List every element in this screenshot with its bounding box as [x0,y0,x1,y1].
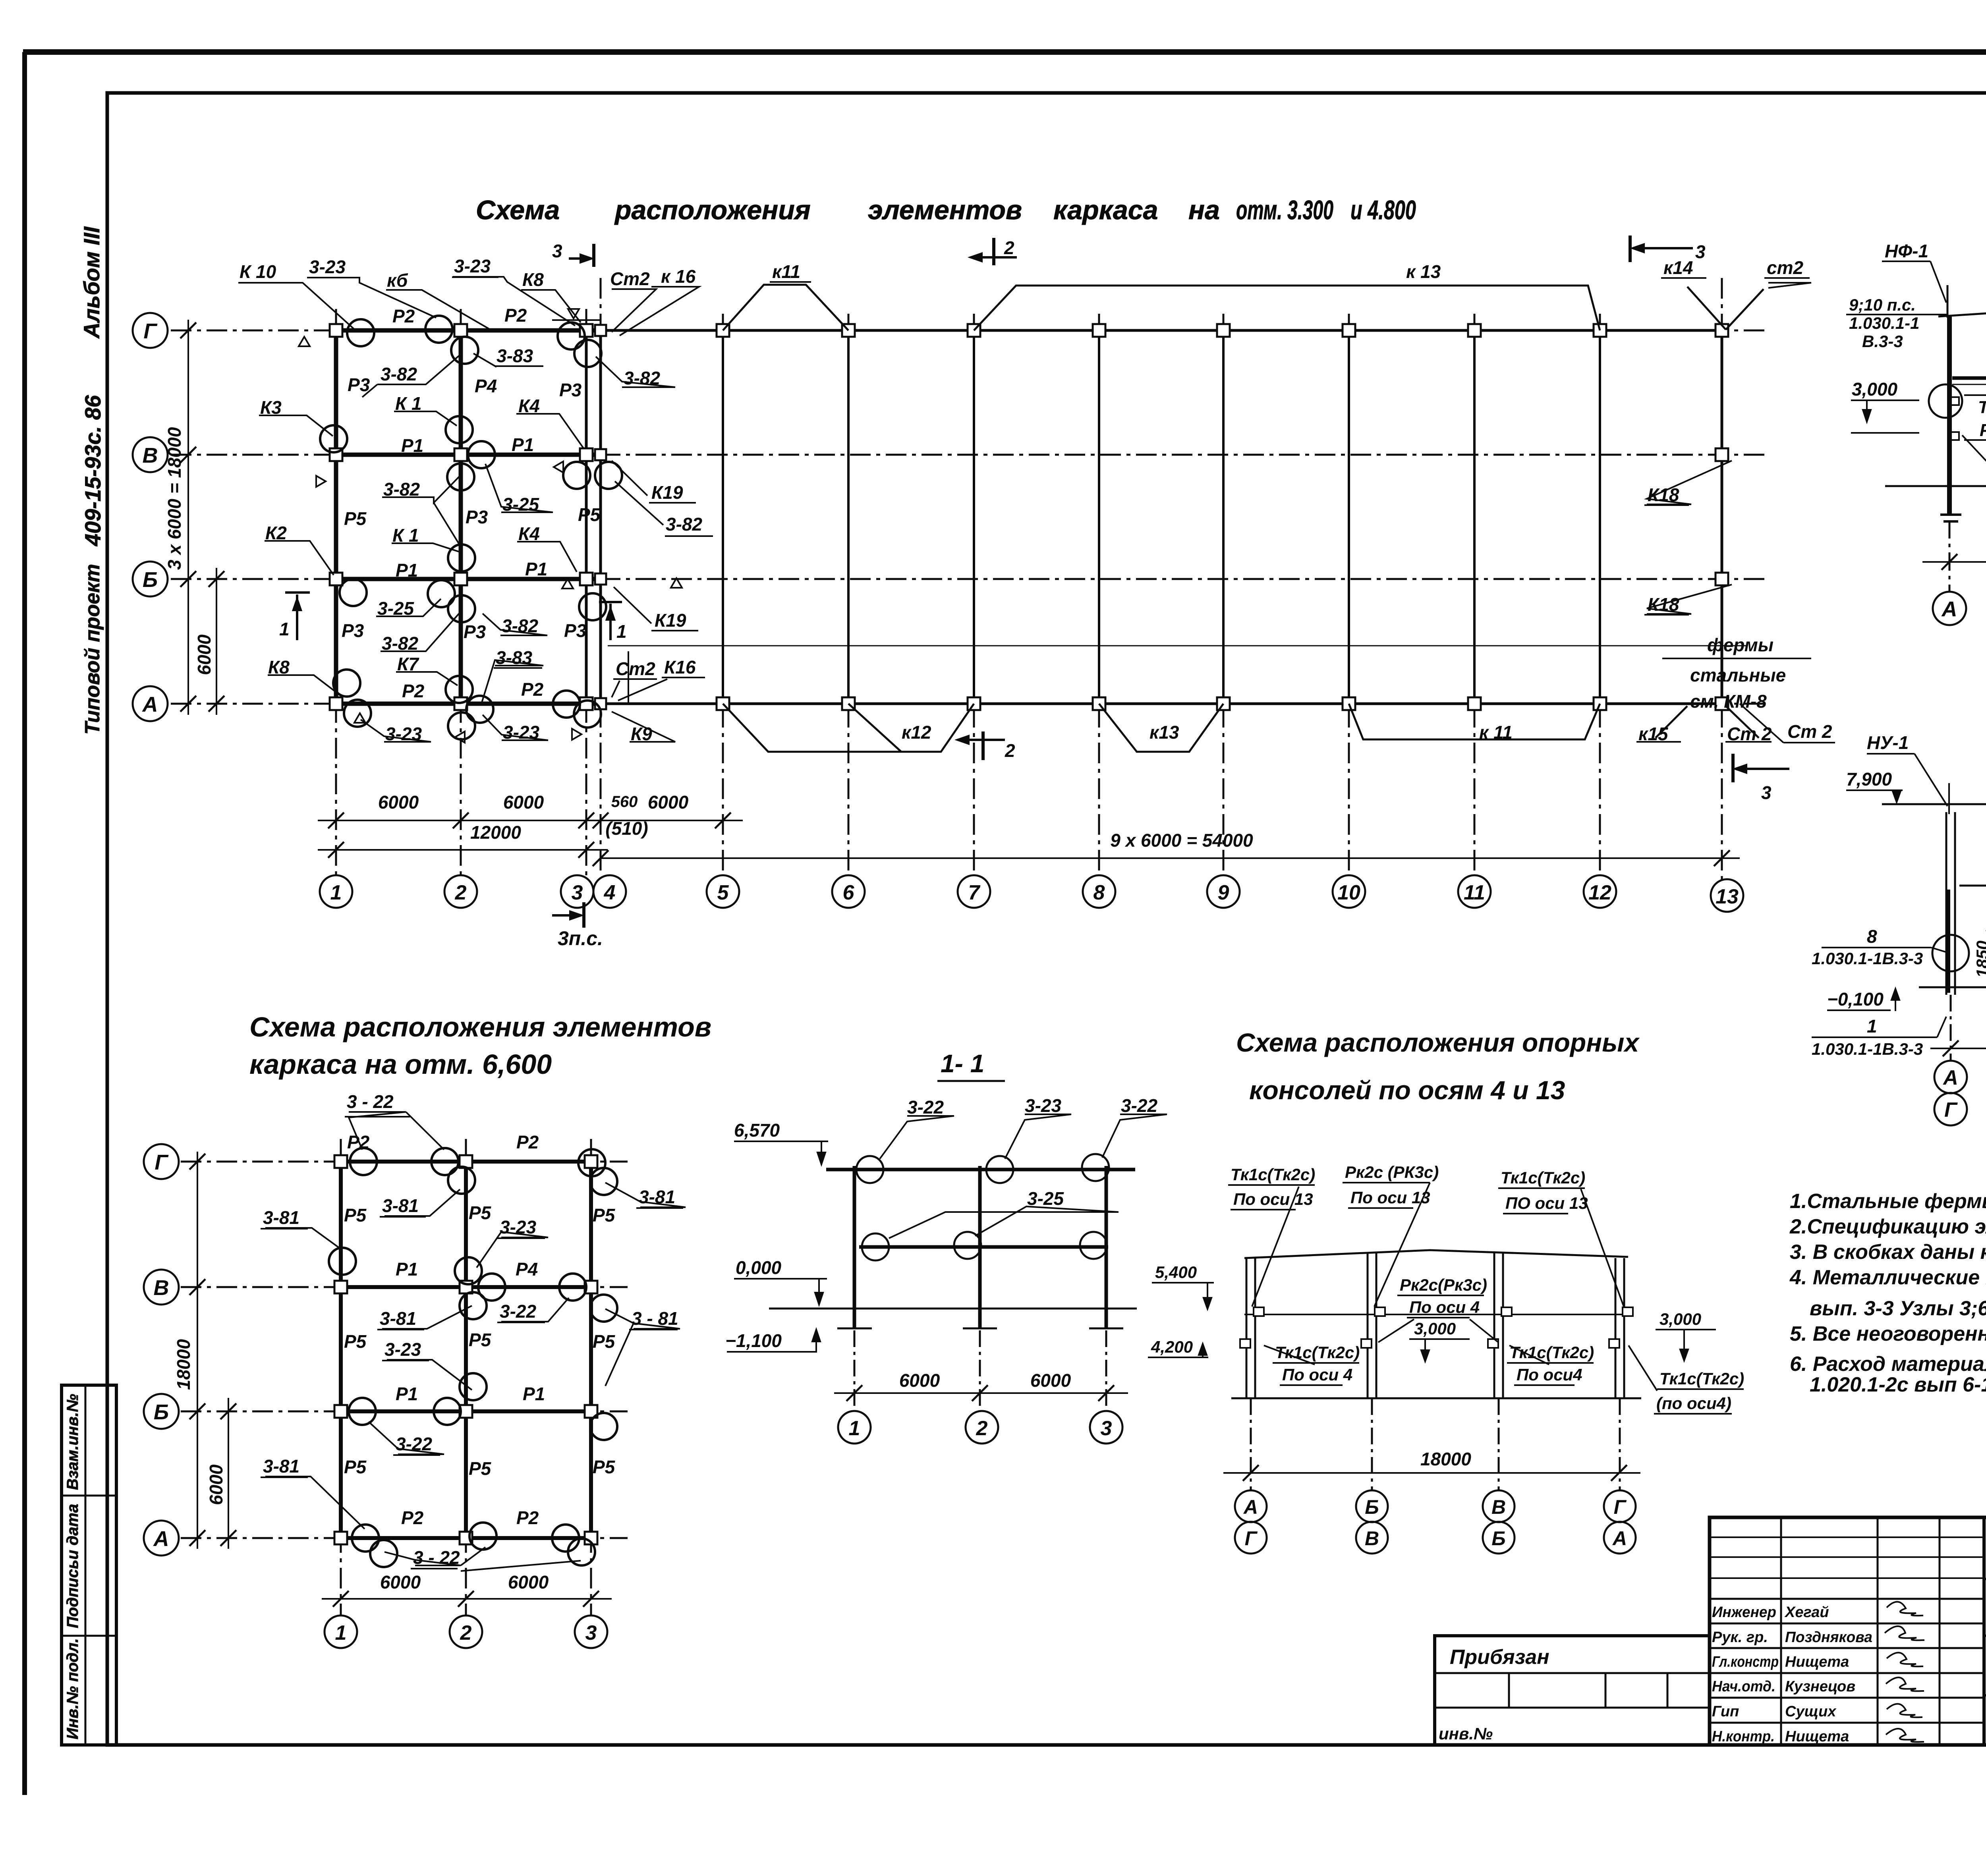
label underlines [452,277,1811,679]
svg-text:Рк2с(Рк3с): Рк2с(Рк3с) [1400,1276,1487,1294]
thick beams [341,1162,591,1538]
svg-text:В: В [143,444,158,467]
svg-text:А: А [153,1527,169,1551]
svg-text:3-23: 3-23 [1025,1095,1061,1116]
svg-text:3-82: 3-82 [624,368,660,388]
svg-text:6,570: 6,570 [734,1120,780,1141]
left stamp table [62,1385,116,1745]
joint squares [330,324,1728,710]
joint circles [320,316,622,739]
svg-text:8: 8 [1867,926,1877,947]
svg-text:К3: К3 [260,397,282,418]
5,400 flag [1152,1282,1214,1283]
svg-text:Позднякова: Позднякова [1785,1629,1872,1646]
svg-text:Б: Б [1365,1496,1379,1518]
svg-text:1.020.1-2с вып 6-1 д.39: 1.020.1-2с вып 6-1 д.39 [1810,1373,1986,1396]
svg-text:3-23: 3-23 [309,257,346,277]
right part [1984,1578,1986,1580]
row dash-dot [181,1162,628,1538]
svg-text:1.030.1-1В.3-3: 1.030.1-1В.3-3 [1812,949,1923,968]
svg-text:12000: 12000 [470,822,521,843]
svg-text:(по оси4): (по оси4) [1656,1394,1731,1413]
svg-text:В.3-3: В.3-3 [1862,332,1903,351]
svg-text:Р2: Р2 [521,679,544,700]
svg-text:3-22: 3-22 [907,1097,944,1117]
svg-text:3п.с.: 3п.с. [558,927,603,950]
svg-text:5: 5 [717,881,729,904]
svg-text:7: 7 [968,881,981,904]
svg-text:Р5: Р5 [578,504,601,525]
svg-text:Нищета: Нищета [1785,1728,1849,1745]
svg-text:1: 1 [1867,1016,1877,1036]
svg-text:3. В скобках даны консоли д: 3. В скобках даны консоли для панелей то… [1790,1241,1986,1264]
svg-text:6000: 6000 [206,1464,226,1505]
svg-text:3-23: 3-23 [500,1217,536,1237]
svg-text:Р1: Р1 [525,559,547,579]
svg-text:кб: кб [387,270,408,291]
svg-text:к14: к14 [1663,257,1693,278]
svg-text:3-81: 3-81 [639,1187,675,1207]
svg-text:Г: Г [1245,1527,1258,1550]
3,000 flag mid [1409,1338,1470,1340]
svg-text:А: А [1941,597,1957,621]
svg-text:9 x 6000 = 54000: 9 x 6000 = 54000 [1110,830,1253,851]
svg-text:стальные: стальные [1690,665,1786,685]
column A [1947,316,1952,514]
svg-text:1: 1 [279,619,290,639]
svg-text:к13: к13 [1149,722,1179,743]
svg-text:Нищета: Нищета [1785,1654,1849,1670]
svg-text:Р2: Р2 [516,1507,539,1528]
svg-text:3-82: 3-82 [381,364,417,384]
svg-text:По оси 13: По оси 13 [1350,1188,1430,1207]
elevations left [727,1141,828,1352]
personnel columns [1780,1517,1782,1745]
svg-text:4,200: 4,200 [1151,1338,1193,1356]
svg-text:3-23: 3-23 [454,256,491,276]
svg-text:Р2: Р2 [347,1132,370,1152]
svg-text:9: 9 [1218,881,1229,904]
svg-text:Б: Б [1491,1527,1505,1550]
leader lines + underlines, top row [238,277,1811,742]
svg-text:А: А [1612,1527,1627,1550]
svg-text:Ст2: Ст2 [616,658,655,679]
svg-text:3 - 22: 3 - 22 [413,1547,460,1568]
svg-text:Н.контр.: Н.контр. [1712,1728,1775,1745]
svg-text:Типовой проект: Типовой проект [81,564,104,735]
svg-text:5. Все неоговоренные узлы: 5. Все неоговоренные узлы приняты по сер… [1790,1322,1986,1345]
svg-text:3-81: 3-81 [382,1195,419,1216]
svg-text:К18: К18 [1648,594,1679,615]
svg-text:В: В [1365,1527,1379,1550]
labels [1151,1163,1744,1413]
horizontal lines [1882,803,1986,805]
column dash-dot [341,1139,591,1615]
dimension lines [180,320,1740,866]
svg-text:Р3: Р3 [342,620,364,641]
svg-text:3-25: 3-25 [1027,1188,1064,1209]
svg-text:1: 1 [335,1621,347,1644]
svg-text:Р5: Р5 [593,1205,616,1226]
svg-text:0,000: 0,000 [736,1257,782,1278]
svg-text:К8: К8 [268,657,290,677]
svg-text:Р2: Р2 [504,305,527,326]
svg-text:Р1: Р1 [523,1384,545,1404]
svg-text:8: 8 [1093,881,1105,904]
svg-text:Рк2с (РК3с): Рк2с (РК3с) [1345,1163,1439,1181]
svg-text:3-22: 3-22 [396,1434,432,1454]
svg-text:Р3: Р3 [464,621,486,642]
svg-text:1: 1 [330,881,342,904]
svg-text:Г: Г [155,1150,169,1174]
leaders [265,1112,686,1571]
svg-text:консолей по осям 4 и 13: консолей по осям 4 и 13 [1249,1075,1565,1105]
svg-text:3-22: 3-22 [500,1301,536,1322]
svg-text:ст2: ст2 [1767,257,1803,278]
svg-text:3 - 22: 3 - 22 [347,1091,394,1112]
svg-text:2: 2 [455,881,467,904]
svg-text:НУ-1: НУ-1 [1867,732,1909,753]
dash-dot + axis circles [1951,995,1986,1061]
axis circles [325,1615,607,1648]
svg-text:НФ-1: НФ-1 [1885,241,1928,261]
svg-text:Тк1с (Тк2с) по осям 4÷13;: Тк1с (Тк2с) по осям 4÷13; [1978,398,1986,417]
svg-text:18000: 18000 [1420,1449,1471,1469]
svg-text:Схема: Схема [476,195,560,225]
svg-text:Тк1с(Тк2с): Тк1с(Тк2с) [1231,1165,1315,1184]
mini table left [1435,1636,1710,1745]
svg-text:3: 3 [1101,1417,1112,1440]
svg-text:Ст2: Ст2 [610,268,650,289]
svg-text:3-23: 3-23 [503,722,539,743]
leaders [1252,1187,1299,1307]
svg-text:18000: 18000 [173,1339,194,1390]
svg-text:Взам.инв.№: Взам.инв.№ [64,1394,81,1490]
svg-text:Р1: Р1 [401,435,423,456]
svg-text:3-81: 3-81 [263,1207,299,1228]
svg-text:каркаса: каркаса [1053,195,1158,225]
svg-text:11: 11 [1464,881,1485,904]
svg-text:3 - 81: 3 - 81 [632,1308,678,1329]
dim 18000 [1223,1472,1640,1474]
svg-text:А: А [1243,1496,1258,1518]
svg-text:Р1: Р1 [396,1259,418,1280]
svg-text:к 16: к 16 [661,266,696,287]
joint squares [334,1155,597,1544]
svg-text:Тк1с(Тк2с): Тк1с(Тк2с) [1275,1343,1360,1362]
svg-text:см. КМ-8: см. КМ-8 [1690,691,1767,712]
horizontal mid line [1244,1314,1628,1315]
svg-text:инв.№: инв.№ [1439,1724,1493,1743]
svg-text:Р5: Р5 [593,1457,616,1477]
plan1 texts [164,237,1803,950]
svg-text:Инженер: Инженер [1712,1604,1776,1621]
svg-text:Р2: Р2 [401,1507,424,1528]
svg-text:К7: К7 [397,654,419,674]
thick columns [334,330,338,704]
svg-text:Р5: Р5 [469,1202,492,1223]
svg-text:А: А [1942,1066,1958,1089]
roof elements [723,285,848,330]
columns (double lines) [1246,1253,1624,1398]
ground [1231,1397,1641,1399]
ground [769,1308,1137,1310]
svg-text:4. Металлические насадки кр: 4. Металлические насадки крепить по сери… [1789,1266,1986,1289]
svg-text:3,000: 3,000 [1852,379,1898,400]
svg-text:Б: Б [154,1400,169,1424]
svg-text:5,400: 5,400 [1155,1263,1197,1282]
svg-text:фермы: фермы [1707,635,1773,655]
svg-text:Р5: Р5 [469,1458,492,1479]
svg-text:3-82: 3-82 [383,479,420,500]
svg-text:−0,100: −0,100 [1827,989,1884,1009]
svg-text:К4: К4 [518,523,540,544]
svg-text:3,000: 3,000 [1660,1310,1701,1328]
svg-text:3,000: 3,000 [1414,1319,1456,1338]
svg-text:1: 1 [616,621,627,642]
svg-text:4: 4 [604,881,616,904]
truss chord line [608,645,1748,647]
svg-text:Рук. гр.: Рук. гр. [1712,1629,1768,1646]
svg-text:К 1: К 1 [392,525,419,546]
section marks [285,235,1789,928]
svg-text:К 1: К 1 [395,393,422,414]
svg-text:По оси 4: По оси 4 [1409,1298,1480,1316]
leaders / underlines [1812,743,1986,1037]
axis number circles [320,875,1743,912]
svg-text:По оси 13: По оси 13 [1233,1190,1313,1208]
svg-text:1.030.1-1В.3-3: 1.030.1-1В.3-3 [1812,1040,1923,1058]
svg-text:Р4: Р4 [516,1259,538,1280]
svg-text:вып. 3-3 Узлы 3;6: вып. 3-3 Узлы 3;6 [1810,1297,1986,1320]
svg-text:Подписьи дата: Подписьи дата [64,1504,81,1628]
svg-text:Г: Г [1614,1496,1627,1518]
svg-text:560: 560 [611,793,638,811]
svg-text:Ст 2: Ст 2 [1787,721,1832,742]
svg-text:3-83: 3-83 [496,345,533,366]
svg-text:отм. 3.300: отм. 3.300 [1236,195,1333,225]
svg-text:К9: К9 [631,724,652,744]
svg-text:3-82: 3-82 [502,616,538,636]
svg-text:3-81: 3-81 [263,1456,299,1476]
svg-text:к11: к11 [772,261,800,282]
outer border left [22,52,27,1795]
svg-text:7,900: 7,900 [1846,769,1892,789]
axis circle pairs [1235,1490,1636,1554]
svg-text:3: 3 [552,241,562,261]
svg-text:3-25: 3-25 [377,598,414,619]
roof line [1938,290,1986,317]
row circles [144,1144,179,1556]
svg-text:3-23: 3-23 [384,1339,421,1360]
svg-text:Г: Г [143,319,158,343]
svg-text:Нач.отд.: Нач.отд. [1712,1678,1775,1695]
svg-text:Схема расположения опорных: Схема расположения опорных [1236,1028,1640,1057]
ground line [1885,485,1986,487]
svg-text:Р2: Р2 [516,1132,539,1152]
svg-text:Прибязан: Прибязан [1450,1646,1549,1669]
svg-text:1- 1: 1- 1 [941,1049,984,1078]
svg-text:Р5: Р5 [593,1331,616,1352]
svg-text:10: 10 [1337,881,1360,904]
joint circles [329,1148,617,1567]
svg-text:3-25: 3-25 [502,494,539,515]
svg-text:3: 3 [1695,241,1706,262]
dash-dot + circles [854,1330,1106,1411]
svg-text:3-22: 3-22 [1121,1095,1157,1116]
svg-text:Альбом III: Альбом III [79,226,104,339]
roof [1244,1250,1628,1258]
svg-text:В: В [154,1276,169,1300]
circles on beams [856,1154,1109,1260]
svg-text:3 x 6000 = 18000: 3 x 6000 = 18000 [164,427,185,570]
svg-text:3-81: 3-81 [380,1308,416,1329]
svg-text:6: 6 [843,881,855,904]
svg-text:к15: к15 [1638,724,1669,744]
svg-text:2: 2 [976,1417,988,1440]
dash-dot [1251,1398,1620,1490]
dash-dot below columns [1949,520,1986,593]
svg-text:Р3: Р3 [466,507,488,527]
svg-text:6000: 6000 [194,634,214,675]
svg-text:и 4.800: и 4.800 [1350,195,1416,225]
svg-text:к 11: к 11 [1479,722,1513,743]
row axis dash-dot lines [171,330,1766,704]
svg-text:Тк1с(Тк2с): Тк1с(Тк2с) [1501,1168,1585,1187]
4,200 flag [1148,1357,1208,1358]
dims [834,1392,1128,1394]
svg-text:Сущих: Сущих [1785,1703,1837,1720]
svg-text:Р4: Р4 [475,376,497,396]
svg-text:9;10 п.с.: 9;10 п.с. [1849,295,1916,314]
svg-text:2: 2 [1005,740,1015,761]
elevation flags [1851,278,1986,531]
svg-text:6000: 6000 [380,1572,421,1592]
svg-text:Хегай: Хегай [1784,1604,1829,1621]
support triangles [299,309,682,743]
labels [880,1114,1167,1238]
footings [1940,513,1961,516]
svg-text:РК2с(РК3с) по осям 5÷12: РК2с(РК3с) по осям 5÷12 [1980,421,1986,440]
svg-text:6000: 6000 [648,792,689,813]
columns [1946,812,1986,995]
svg-text:6000: 6000 [378,792,419,813]
svg-text:2: 2 [460,1621,472,1644]
svg-text:Р5: Р5 [344,1331,367,1352]
svg-text:Р3: Р3 [559,380,582,400]
svg-text:По оси4: По оси4 [1517,1365,1582,1384]
svg-text:К19: К19 [655,610,686,631]
svg-text:6000: 6000 [899,1370,940,1391]
thick beams rows [336,328,601,333]
svg-text:Кузнецов: Кузнецов [1785,1678,1855,1695]
svg-text:Схема расположения элементов: Схема расположения элементов [249,1011,711,1042]
svg-text:на: на [1188,195,1220,225]
svg-text:Р5: Р5 [344,1457,367,1477]
svg-text:к 13: к 13 [1406,261,1441,282]
svg-text:К18: К18 [1648,484,1679,505]
svg-text:3: 3 [585,1621,597,1644]
svg-text:3-83: 3-83 [496,647,532,668]
svg-text:6000: 6000 [503,792,544,813]
svg-text:409-15-93с. 86: 409-15-93с. 86 [80,395,105,546]
svg-text:Б: Б [143,568,158,592]
svg-text:Р5: Р5 [469,1330,492,1350]
svg-text:1.Стальные фермы и связи с: 1.Стальные фермы и связи см. листы КМ [1790,1190,1986,1213]
column axis dash-dot lines [336,278,1722,881]
svg-text:1: 1 [849,1417,860,1440]
svg-text:3-23: 3-23 [385,724,422,744]
columns [854,1166,1106,1328]
outer border top [23,49,1986,55]
svg-text:Р1: Р1 [396,560,418,581]
svg-text:3-82: 3-82 [382,633,418,654]
svg-text:элементов: элементов [868,195,1022,225]
svg-text:13: 13 [1716,885,1739,908]
svg-text:2: 2 [1004,237,1014,258]
svg-text:12: 12 [1588,881,1611,904]
svg-text:Инв.№ подл.: Инв.№ подл. [64,1638,81,1739]
dims [189,1152,612,1607]
3,000 right flag [1656,1329,1716,1330]
svg-text:расположения: расположения [614,195,811,225]
svg-text:3: 3 [1761,782,1772,803]
svg-text:Гип: Гип [1712,1703,1739,1720]
node circles [1932,935,1969,971]
svg-text:Р1: Р1 [512,434,534,455]
svg-text:Р3: Р3 [348,374,370,395]
svg-text:К8: К8 [522,269,544,290]
svg-text:6000: 6000 [1030,1370,1071,1391]
svg-text:А: А [142,693,158,716]
svg-text:По оси 4: По оси 4 [1282,1365,1352,1384]
svg-text:К19: К19 [651,482,683,503]
svg-text:−1,100: −1,100 [725,1330,782,1351]
svg-text:3: 3 [572,881,583,904]
node circles [1929,384,1962,418]
svg-text:1850: 1850 [1973,941,1986,978]
svg-text:К 10: К 10 [240,261,276,282]
svg-text:к12: к12 [902,722,931,743]
labels [263,1091,678,1568]
personnel rows [1710,1537,1984,1578]
svg-text:Р2: Р2 [402,681,425,701]
svg-text:Р1: Р1 [396,1384,418,1404]
svg-text:6. Расход материалов на узл: 6. Расход материалов на узлы каркаса в о… [1790,1353,1986,1376]
svg-text:К16: К16 [664,657,696,677]
svg-text:Гл.констр: Гл.констр [1712,1654,1779,1670]
svg-text:3-82: 3-82 [666,514,702,535]
svg-text:2.Спецификацию элементов ка: 2.Спецификацию элементов каркаса см. лис… [1789,1215,1986,1238]
row circles [133,313,168,721]
svg-text:(510): (510) [605,818,648,839]
svg-text:6000: 6000 [508,1572,549,1592]
svg-text:1.030.1-1: 1.030.1-1 [1849,314,1919,332]
svg-text:Тк1с(Тк2с): Тк1с(Тк2с) [1660,1369,1744,1388]
svg-text:К2: К2 [265,523,287,543]
dim 18000 [1922,561,1986,563]
svg-text:Г: Г [1944,1098,1958,1121]
svg-text:каркаса на отм. 6,600: каркаса на отм. 6,600 [249,1049,552,1080]
signatures squiggles [1885,1602,1924,1742]
svg-text:Р2: Р2 [392,306,415,326]
svg-text:ПО оси 13: ПО оси 13 [1505,1194,1588,1212]
svg-text:Р5: Р5 [344,1205,367,1226]
svg-text:К4: К4 [518,396,540,416]
svg-text:В: В [1491,1496,1506,1518]
svg-text:Р5: Р5 [344,508,367,529]
console squares [1240,1307,1633,1348]
